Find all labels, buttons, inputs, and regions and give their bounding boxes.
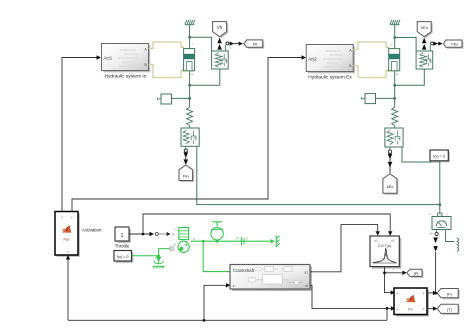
rotational reference ground (bright green) [153, 261, 165, 269]
svg-text:f(x) = 0: f(x) = 0 [117, 255, 129, 259]
MATLAB function block fcn [394, 288, 429, 317]
svg-text:Hydraulic system In: Hydraulic system In [105, 74, 147, 80]
node junction (439.8,204.6) [438, 203, 441, 206]
arrow down to rotational ground [157, 256, 161, 261]
wire lower box to main horizontal [197, 146, 440, 204]
svg-text:Throttle: Throttle [115, 244, 130, 249]
solver configuration f(x)=0 right [430, 150, 450, 162]
subsystem Hydraulic system In [102, 44, 151, 80]
arrow to FEx lower (double arrowhead) [388, 154, 393, 173]
node junction (189.6,98.4) [188, 97, 191, 100]
node junction (158.6,255.8) [157, 254, 160, 257]
wire sensor port below box right [389, 147, 391, 150]
svg-text:Fin: Fin [183, 173, 189, 178]
hydraulic line B (tan) [149, 65, 183, 78]
ground mechanical reference left [185, 20, 195, 26]
wire sensor port below box [185, 146, 187, 149]
wire rod top left [189, 26, 191, 49]
port nub engine B [170, 247, 173, 250]
ground mechanical reference right [390, 20, 400, 26]
svg-text:Vfr: Vfr [217, 25, 223, 30]
svg-text:[F]: [F] [447, 292, 451, 296]
node junction (217.1,241.2) [216, 240, 219, 243]
svg-text:a1: a1 [304, 271, 308, 275]
svg-text:T: T [423, 307, 425, 311]
cylinder (double-acting) right [389, 43, 400, 77]
svg-text:kEx: kEx [387, 184, 394, 189]
converter to engine T port [155, 232, 175, 237]
svg-text:fcn: fcn [408, 308, 413, 312]
spring-damper box lower right [385, 128, 403, 147]
wire lookup out to P tag and fcn [385, 267, 407, 295]
svg-text:Crankshaft: Crankshaft [233, 268, 255, 273]
cylinder (double-acting) left [184, 42, 195, 77]
node junction (394.7,98.4) [393, 97, 396, 100]
wire Act1 signal [62, 55, 101, 211]
node junction (387,308.4) [386, 307, 389, 310]
wire solver down to sensor [439, 161, 441, 213]
wire sensor to Ffr [226, 42, 243, 52]
wire box bottom loop right [395, 69, 425, 85]
spring right [392, 107, 398, 128]
arrow to VEx (double arrowhead) [422, 38, 427, 50]
svg-text:pR: pR [430, 232, 433, 236]
wire sensor signal down to F junction [435, 252, 437, 293]
rotational reference end (bright green) [276, 236, 279, 248]
inertia block (bright green) [211, 222, 223, 241]
wire Throttle to lookup u2 [143, 214, 392, 236]
svg-text:w: w [429, 213, 431, 216]
node junction (203.2,241.2) [202, 240, 205, 243]
wire mass to node right [376, 97, 395, 99]
svg-text:f(x) = 0: f(x) = 0 [433, 155, 445, 159]
arrow to Vfr (double arrowhead) [217, 38, 222, 50]
node junction (394.7,85.3) [393, 84, 396, 87]
port circle right [388, 150, 391, 153]
wire mass to node [172, 97, 190, 99]
mass block left [157, 94, 171, 104]
hydraulic line A right (tan) [353, 42, 387, 50]
sensor left port circle [430, 230, 439, 236]
wire Crankshaft a1 to lookup u1 [310, 225, 380, 272]
wire box bottom loop left [190, 69, 220, 85]
svg-text:Hydraulic system Ex: Hydraulic system Ex [308, 75, 352, 81]
rotational damper R-C (bright green) [236, 236, 248, 245]
svg-text:Ffr: Ffr [253, 42, 259, 47]
subsystem Crankshaft [230, 265, 312, 292]
spring-damper box upper left [212, 51, 229, 69]
hydraulic line B right (tan) [353, 66, 387, 78]
subsystem Hydraulic system Ex [306, 45, 355, 81]
goto tag [T] [437, 304, 460, 315]
svg-text:el: el [306, 284, 309, 288]
svg-text:B: B [174, 243, 176, 247]
svg-text:u2: u2 [391, 239, 395, 243]
svg-text:Run: Run [63, 238, 69, 242]
goto tag Vfr [213, 22, 229, 38]
svg-text:e: e [233, 284, 235, 288]
wire fcn to [F] [427, 291, 437, 295]
arrow to Fin (double arrowhead) [184, 152, 189, 165]
svg-text:Act1: Act1 [104, 55, 113, 60]
svg-text:1: 1 [121, 233, 124, 239]
wire sensor right port to coil [446, 230, 455, 242]
wire branch to friction box [190, 37, 212, 51]
svg-text:Act2: Act2 [308, 56, 317, 61]
hydraulic line A (tan) [149, 42, 183, 49]
wire cylinder bottom left [189, 71, 191, 107]
spring-damper box lower left [181, 128, 199, 146]
goto tag Ffr [244, 40, 264, 49]
svg-text:[P]: [P] [414, 272, 418, 276]
MATLAB function block Activation [55, 212, 102, 257]
constant Throttle [115, 227, 131, 249]
wire lower box right to solver node [402, 147, 440, 162]
svg-text:T: T [174, 228, 176, 232]
svg-text:u1: u1 [375, 239, 379, 243]
node junction (204,320.3) [203, 319, 206, 322]
wire solver to engine B (bright green) [132, 249, 171, 256]
svg-text:VEx: VEx [421, 25, 428, 30]
svg-text:F: F [423, 292, 425, 296]
node junction (394.7,37.5) [393, 36, 396, 39]
wire feedback into Activation bottom [66, 255, 70, 320]
node junction (189.6,37.3) [188, 36, 191, 39]
wire feedback branch down [386, 308, 388, 320]
wire Crankshaft el to fcn [310, 285, 395, 310]
solver configuration f(x)=0 left [114, 251, 133, 263]
goto tag FEx [444, 40, 464, 49]
goto tag [P] [407, 269, 424, 278]
svg-text:F: F [193, 237, 195, 241]
wire branch to friction box right [395, 38, 416, 52]
wire rod top right [394, 26, 396, 49]
goto tag FEx lower [383, 174, 399, 195]
wire feedback main horizontal [68, 319, 387, 321]
node junction (189.6,85.3) [188, 84, 191, 87]
wire feedback to Crankshaft e port [204, 283, 231, 320]
goto tag Fin [179, 165, 194, 182]
node junction (388,272.6) [383, 271, 386, 274]
engine block (bright green) [174, 228, 196, 253]
spring-damper box upper right [416, 51, 433, 69]
spring left [187, 107, 193, 128]
node junction (143,234) [142, 233, 145, 236]
arrow chain sensor to F line (double arrowhead) [433, 238, 438, 252]
wire engine F shaft line (bright green) [191, 239, 275, 243]
port circle [184, 149, 187, 152]
lookup table 2-D T(u) [370, 236, 401, 269]
wire sensor to FEx [430, 42, 442, 52]
rotational spring coil [457, 238, 459, 251]
mass block right [361, 94, 375, 104]
node junction (436.1,293.1) [434, 292, 437, 295]
wire engine to Crankshaft (bright green) [203, 241, 230, 271]
svg-text:[T]: [T] [447, 308, 451, 312]
sensor block right column [429, 213, 451, 230]
svg-text:2-D T(u): 2-D T(u) [378, 244, 391, 248]
goto tag [F] [437, 289, 460, 300]
wire fcn to [T] [427, 306, 437, 310]
wire Throttle out [129, 232, 154, 236]
wire Act2 signal [72, 55, 306, 211]
goto tag VEx [417, 22, 433, 38]
svg-text:FEx: FEx [451, 43, 458, 47]
wire cylinder bottom right [394, 71, 396, 107]
svg-text:Activation: Activation [82, 228, 102, 233]
